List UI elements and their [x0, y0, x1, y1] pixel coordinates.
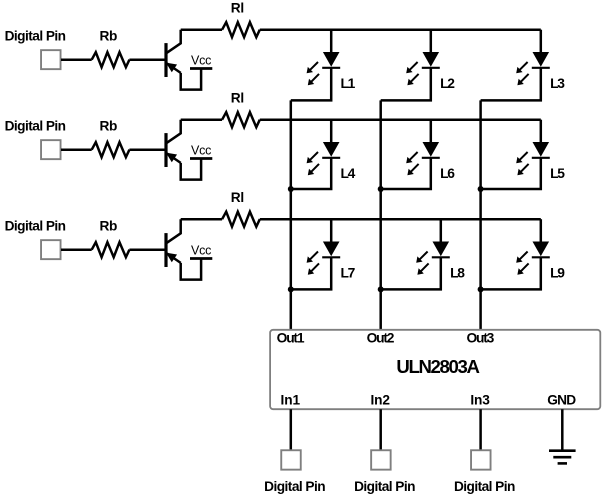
- svg-text:Digital Pin: Digital Pin: [5, 119, 66, 134]
- LED L4: [307, 120, 341, 176]
- wire: row 1 line right of Rl: [260, 28, 541, 31]
- svg-text:Out1: Out1: [277, 331, 305, 346]
- svg-text:L3: L3: [550, 76, 565, 91]
- wire: column 1 to Out1: [290, 100, 293, 329]
- resistor Rb (row 2): [92, 142, 130, 157]
- svg-text:Digital Pin: Digital Pin: [5, 29, 66, 44]
- svg-text:Out3: Out3: [466, 331, 494, 346]
- svg-text:L1: L1: [341, 76, 356, 91]
- LED L7: [307, 219, 341, 275]
- svg-text:L4: L4: [341, 166, 356, 181]
- junction: L8 return on column 2: [378, 286, 384, 292]
- IC U1 ULN2803A body: [270, 330, 600, 409]
- ground symbol: [549, 409, 576, 463]
- resistor Rl (row 3): [222, 212, 260, 227]
- wire: row 3 line left of Rl: [181, 218, 222, 221]
- wire: row 2 line left of Rl: [181, 118, 222, 121]
- resistor Rl (row 1): [222, 22, 260, 37]
- digital pin pad (In2): [371, 450, 391, 469]
- wire: L2 cathode: [381, 68, 431, 101]
- power rail Vcc (row 3): [190, 257, 212, 260]
- power rail Vcc (row 2): [190, 157, 212, 160]
- LED L9: [516, 219, 550, 275]
- resistor Rb (row 3): [92, 242, 130, 257]
- wire: L8 cathode: [381, 257, 441, 289]
- digital pin pad (row 3): [41, 240, 61, 259]
- svg-text:In3: In3: [470, 392, 490, 407]
- transistor Q1 (PNP): [166, 30, 181, 77]
- svg-text:In1: In1: [281, 392, 301, 407]
- LED L8: [416, 219, 450, 275]
- transistor Q3 (PNP): [166, 219, 181, 267]
- svg-text:L2: L2: [440, 76, 455, 91]
- svg-text:Rl: Rl: [231, 190, 244, 205]
- LED L3: [516, 30, 550, 85]
- wire: In1 to digital pin pad: [290, 409, 293, 450]
- wire: column 3 to Out3: [479, 100, 482, 329]
- digital pin pad (In3): [471, 450, 491, 469]
- svg-text:Rb: Rb: [100, 119, 117, 134]
- svg-text:Vcc: Vcc: [191, 53, 211, 67]
- power rail Vcc (row 1): [190, 67, 212, 70]
- svg-text:L9: L9: [550, 266, 565, 281]
- wire: Rb to Q2 base: [129, 148, 164, 151]
- svg-text:Digital Pin: Digital Pin: [354, 479, 415, 494]
- wire: L5 cathode: [481, 158, 541, 189]
- wire: Rb to Q1 base: [129, 58, 164, 61]
- wire: column 2 to Out2: [379, 100, 382, 329]
- wire: L1 cathode: [291, 68, 331, 101]
- svg-text:Vcc: Vcc: [191, 243, 211, 257]
- junction: L9 return on column 3: [478, 286, 484, 292]
- junction: L6 return on column 2: [378, 186, 384, 192]
- LED L1: [307, 30, 341, 85]
- digital pin pad (row 2): [41, 140, 61, 159]
- transistor Q2 (PNP): [166, 120, 181, 167]
- wire: L3 cathode: [481, 68, 541, 101]
- wire: Q2 emitter to Vcc rail: [181, 159, 201, 180]
- svg-text:Digital Pin: Digital Pin: [5, 219, 66, 234]
- wire: Q3 emitter to Vcc rail: [181, 259, 201, 280]
- wire: row 2 line right of Rl: [260, 118, 541, 121]
- junction: L5 return on column 3: [478, 186, 484, 192]
- wire: pad to Rb (row 3): [61, 248, 92, 251]
- svg-text:Rl: Rl: [231, 0, 244, 15]
- svg-text:L8: L8: [450, 266, 465, 281]
- wire: L9 cathode: [481, 257, 541, 289]
- svg-text:Digital Pin: Digital Pin: [264, 479, 325, 494]
- svg-text:L6: L6: [440, 166, 455, 181]
- wire: row 1 line left of Rl: [181, 28, 222, 31]
- junction: L4 return on column 1: [288, 186, 294, 192]
- svg-text:ULN2803A: ULN2803A: [396, 356, 479, 377]
- svg-text:L7: L7: [341, 266, 356, 281]
- svg-text:Rb: Rb: [100, 29, 117, 44]
- svg-text:GND: GND: [547, 392, 576, 407]
- wire: pad to Rb (row 2): [61, 148, 92, 151]
- wire: Q1 emitter to Vcc rail: [181, 69, 201, 90]
- svg-text:Vcc: Vcc: [191, 143, 211, 157]
- LED L6: [406, 120, 440, 176]
- resistor Rb (row 1): [92, 52, 130, 67]
- junction: L7 return on column 1: [288, 286, 294, 292]
- svg-text:L5: L5: [550, 166, 565, 181]
- LED L5: [516, 120, 550, 176]
- LED L2: [406, 30, 440, 85]
- svg-text:Rb: Rb: [100, 219, 117, 234]
- resistor Rl (row 2): [222, 112, 260, 127]
- svg-text:In2: In2: [370, 392, 390, 407]
- svg-text:Out2: Out2: [367, 331, 395, 346]
- svg-text:Digital Pin: Digital Pin: [454, 479, 515, 494]
- wire: In2 to digital pin pad: [379, 409, 382, 450]
- wire: row 3 line right of Rl: [260, 218, 541, 221]
- digital pin pad (In1): [281, 450, 301, 469]
- digital pin pad (row 1): [41, 50, 61, 69]
- svg-text:Rl: Rl: [231, 90, 244, 105]
- wire: L6 cathode: [381, 158, 431, 189]
- wire: L4 cathode: [291, 158, 331, 189]
- wire: pad to Rb (row 1): [61, 58, 92, 61]
- wire: L7 cathode: [291, 257, 331, 289]
- wire: In3 to digital pin pad: [479, 409, 482, 450]
- wire: Rb to Q3 base: [129, 248, 164, 251]
